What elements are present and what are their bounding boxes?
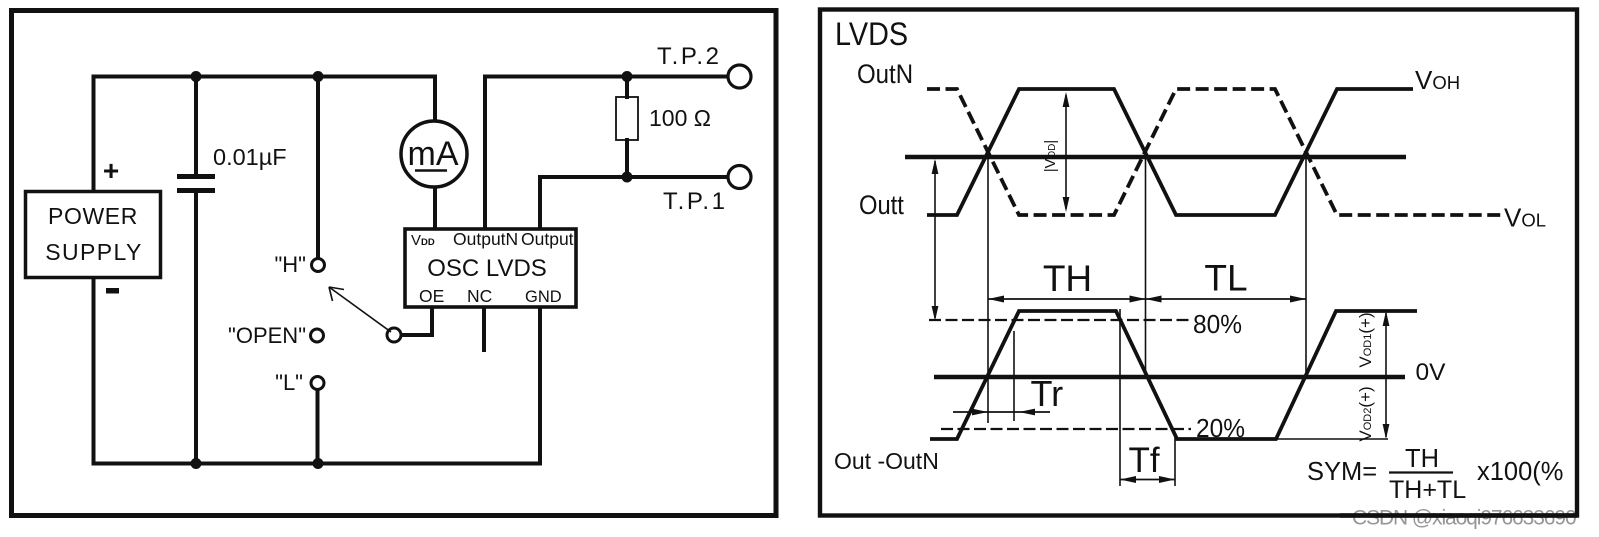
svg-text:Out -OutN: Out -OutN	[834, 448, 939, 474]
svg-text:x100(%: x100(%	[1477, 458, 1563, 486]
svg-text:VOD2(+): VOD2(+)	[1356, 386, 1375, 441]
svg-text:+: +	[103, 155, 119, 186]
svg-text:TH+TL: TH+TL	[1389, 476, 1466, 504]
svg-text:VOD1(+): VOD1(+)	[1356, 312, 1375, 367]
svg-text:0V: 0V	[1416, 359, 1447, 386]
svg-text:SYM=: SYM=	[1307, 458, 1377, 486]
svg-text:TH: TH	[1405, 445, 1439, 473]
svg-text:LVDS: LVDS	[835, 17, 908, 53]
svg-text:OE: OE	[419, 286, 444, 306]
svg-text:T.P.1: T.P.1	[663, 188, 728, 215]
svg-text:80%: 80%	[1193, 311, 1242, 340]
svg-text:0.01µF: 0.01µF	[213, 144, 287, 170]
svg-text:TH: TH	[1043, 258, 1092, 299]
svg-text:CSDN @xiaoqi976633690: CSDN @xiaoqi976633690	[1352, 507, 1576, 530]
svg-text:mA: mA	[408, 135, 459, 173]
svg-text:VOH: VOH	[1415, 65, 1460, 95]
svg-text:OSC LVDS: OSC LVDS	[427, 255, 547, 282]
svg-text:100 Ω: 100 Ω	[649, 105, 711, 131]
svg-text:POWER: POWER	[48, 203, 138, 229]
svg-text:NC: NC	[467, 286, 492, 306]
svg-text:Tr: Tr	[1031, 373, 1064, 414]
svg-text:"OPEN": "OPEN"	[228, 323, 306, 348]
svg-text:Output: Output	[521, 229, 574, 249]
svg-text:GND: GND	[525, 288, 562, 306]
svg-text:Outt: Outt	[859, 191, 904, 221]
svg-text:"H": "H"	[274, 252, 306, 277]
svg-text:"L": "L"	[275, 370, 303, 395]
svg-text:OutN: OutN	[857, 60, 913, 90]
svg-text:TL: TL	[1204, 258, 1247, 299]
svg-text:T.P.2: T.P.2	[657, 43, 722, 70]
svg-text:VOL: VOL	[1504, 203, 1546, 233]
svg-text:OutputN: OutputN	[453, 229, 518, 249]
svg-text:SUPPLY: SUPPLY	[45, 239, 142, 265]
svg-text:Tf: Tf	[1128, 441, 1159, 480]
